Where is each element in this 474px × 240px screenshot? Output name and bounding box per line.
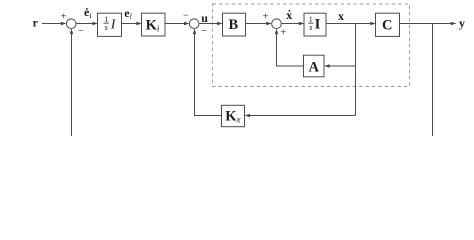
wire x-node vertical tap down to Kx row (355, 24, 357, 116)
summing junction S3 (272, 19, 282, 29)
block B (input matrix) (223, 13, 246, 36)
summing junction S1 (66, 19, 76, 29)
svg-text:−: − (201, 26, 207, 37)
wire r to summing junction S1 (42, 22, 66, 26)
block A (state matrix) (304, 55, 325, 77)
svg-text:x: x (338, 9, 344, 23)
wire y feedback: drop from output line down off-canvas (432, 24, 434, 137)
block Ki (integral gain) (142, 13, 166, 36)
svg-text:+: + (60, 12, 66, 23)
wire x : plant integrator to C (326, 22, 376, 26)
svg-text:s: s (309, 23, 312, 32)
wire C to output y (400, 22, 457, 26)
svg-text:C: C (382, 17, 392, 33)
label 1/s I inside integrator block (104, 15, 117, 33)
svg-text:+: + (280, 28, 286, 39)
svg-text:+: + (263, 12, 269, 23)
block C (output matrix) (376, 13, 400, 36)
label 1/s I inside plant integrator block (308, 15, 320, 33)
dashed plant/state-space boundary box (213, 4, 410, 87)
wire Kx output up to S2 (193, 29, 222, 116)
block Kx (state feedback gain) (222, 105, 245, 126)
svg-text:−: − (78, 26, 84, 37)
wire B to summing junction S3 (246, 22, 272, 26)
wire xdot : S3 to plant integrator (281, 22, 304, 26)
wire A output up to S3 (275, 29, 304, 66)
wire feedback rising to S1 from below canvas (70, 29, 74, 136)
wire u : S2 to B (199, 22, 223, 26)
svg-text:B: B (228, 17, 238, 33)
block 1/s I (plant integrator) (304, 13, 326, 36)
svg-text:−: − (183, 10, 189, 21)
svg-text:u: u (201, 11, 208, 25)
svg-text:y: y (459, 16, 465, 30)
block 1/s I (integrator of error) (98, 13, 122, 36)
wire S1 to integrator block (76, 22, 98, 26)
svg-text:I: I (315, 17, 321, 33)
node xdot label (286, 8, 292, 22)
wire x to A input (324, 64, 355, 68)
wire x to Kx input (245, 114, 356, 118)
svg-text:s: s (105, 23, 108, 32)
wire Ki to summing junction S2 (165, 22, 189, 26)
wire integrator to Ki (122, 22, 142, 26)
summing junction S2 (189, 19, 199, 29)
svg-text:A: A (309, 59, 320, 75)
svg-text:r: r (33, 16, 39, 30)
